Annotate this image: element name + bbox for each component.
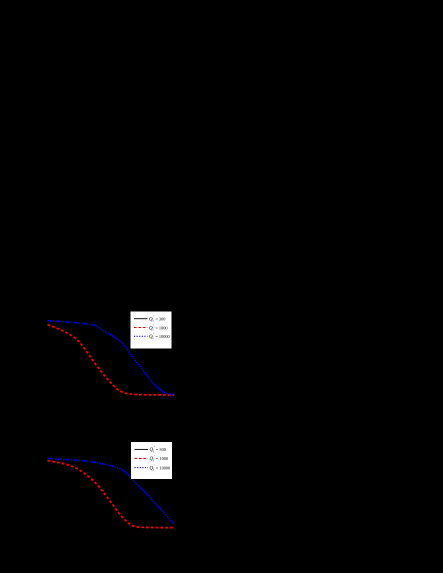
legend box — [131, 442, 172, 479]
legend sample line Q=10000 — [135, 467, 149, 469]
legend sample line Q=300 — [134, 318, 148, 320]
legend sample line Q=10000 — [134, 335, 148, 337]
legend sample line Q=1000 — [135, 457, 149, 459]
lower plot: red dashed curve Q=1000 — [48, 461, 175, 528]
upper plot: blue dotted curve Q=10000 — [48, 321, 175, 395]
legend sample line Q=300 — [135, 448, 149, 450]
legend box — [131, 312, 172, 349]
legend sample line Q=1000 — [134, 327, 148, 329]
upper plot: red dashed curve Q=1000 — [48, 325, 175, 395]
lower plot: blue dotted curve Q=10000 — [48, 459, 175, 524]
